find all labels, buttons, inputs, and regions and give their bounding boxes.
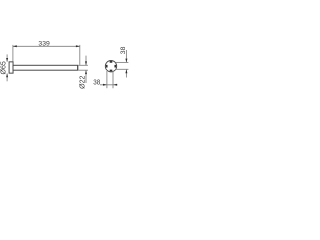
rosette front view: right mark (114, 65, 116, 68)
dimension 38 vertical: upper extension line (115, 61, 128, 63)
dimension 339: left arrow (13, 45, 17, 47)
wall plate (side view, rosette) (9, 62, 13, 73)
dimension 38 horizontal: left arrow (points right) (103, 84, 107, 86)
dimension Ø22: lower dim line (85, 70, 87, 83)
dimension Ø65: upper dim line (6, 54, 8, 61)
dimension 38 vertical: bottom arrow (points up) (125, 70, 127, 74)
rosette front view: top mark (110, 61, 113, 63)
dimension 339: right extension line (79, 45, 81, 65)
dimension Ø22: top arrow (points down) (85, 61, 87, 65)
dimension 339: right arrow (76, 45, 80, 47)
dimension 38 vertical: lower extension line (115, 68, 128, 70)
dimension 339: left extension line (12, 45, 14, 62)
dimension Ø65: lower dim line (6, 74, 8, 82)
dimension Ø22: bottom arrow (points up) (85, 70, 87, 74)
svg-text:339: 339 (38, 41, 50, 48)
dimension 38 vertical: lower dim line (125, 70, 127, 78)
bar end cap line (77, 66, 79, 71)
dimension 38 horizontal: right arrow (points left) (113, 84, 117, 86)
towel bar (side view) (13, 65, 78, 70)
dimension Ø22: lower extension line (78, 69, 88, 71)
svg-text:38: 38 (120, 46, 127, 54)
rosette front view: left mark (106, 65, 108, 68)
dimension 38 vertical: top arrow (points down) (125, 59, 127, 63)
dimension Ø65: bottom arrow (points up to plate bottom) (6, 73, 8, 77)
dimension 38 horizontal: right extension line (112, 71, 114, 88)
svg-text:Ø22: Ø22 (79, 76, 86, 89)
dimension 38 vertical: upper dim line (125, 50, 127, 62)
dimension 38 horizontal: left extension line (106, 71, 108, 88)
dimension 339: dim line (13, 45, 80, 47)
svg-text:Ø65: Ø65 (0, 61, 7, 74)
dimension Ø22: upper extension line (78, 64, 88, 66)
dimension Ø65: top arrow (points down to plate top) (6, 58, 8, 62)
rosette front view: bottom mark (110, 70, 113, 72)
rosette front view: outer circle (105, 60, 116, 71)
dimension 38 horizontal: left dim line (100, 84, 117, 86)
dimension Ø22: upper dim line (85, 56, 87, 66)
svg-text:38: 38 (93, 78, 100, 87)
